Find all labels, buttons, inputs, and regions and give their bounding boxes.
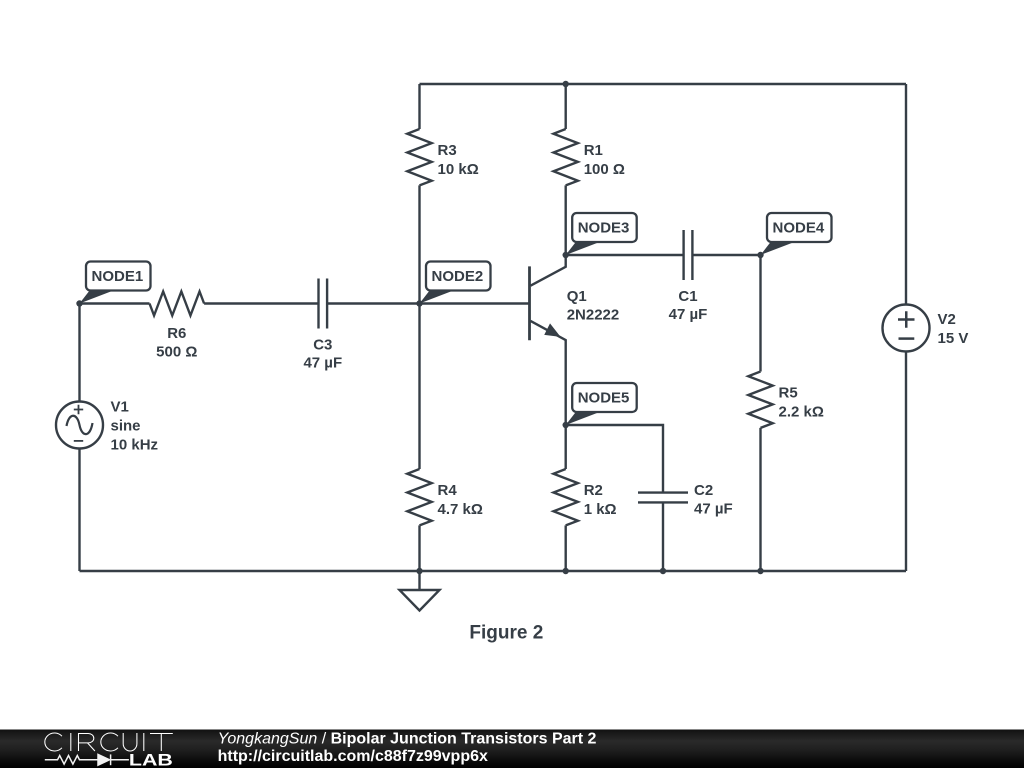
wire NODE1 to R6: [80, 302, 150, 304]
wire top rail junction to R1: [565, 84, 567, 129]
svg-text:R5: R5: [779, 384, 798, 401]
resistor R3: [407, 129, 431, 185]
svg-text:R3: R3: [438, 142, 457, 159]
resistor R2: [554, 469, 578, 525]
junction dot NODE3: [563, 252, 569, 258]
junction dot NODE4: [757, 252, 763, 258]
svg-text:NODE5: NODE5: [578, 390, 630, 407]
resistor R5: [748, 372, 772, 428]
junction dot NODE1: [76, 300, 82, 306]
svg-text:http://circuitlab.com/c88f7z99: http://circuitlab.com/c88f7z99vpp6x: [218, 748, 488, 765]
svg-text:1 kΩ: 1 kΩ: [584, 501, 617, 518]
capacitor C1: [684, 230, 693, 280]
capacitor C2 labels: [694, 482, 733, 518]
svg-text:2N2222: 2N2222: [567, 307, 620, 324]
svg-text:500 Ω: 500 Ω: [156, 343, 197, 360]
wire NODE5 to C2: [566, 425, 663, 493]
wire C1 to NODE4: [692, 254, 760, 256]
svg-text:C2: C2: [694, 482, 713, 499]
junction dot ground rail C2: [660, 568, 666, 574]
svg-text:100 Ω: 100 Ω: [584, 161, 625, 178]
node NODE4 callout: [761, 213, 832, 255]
wire R1 to NODE3: [565, 185, 567, 255]
svg-text:NODE3: NODE3: [578, 220, 630, 237]
svg-text:10 kHz: 10 kHz: [111, 437, 159, 454]
voltage source V2 labels: [938, 311, 969, 347]
resistor R4: [407, 469, 431, 525]
capacitor C3: [319, 279, 328, 329]
ground: [400, 571, 440, 611]
wire R2 to bottom rail: [565, 525, 567, 571]
junction dot ground rail R2: [563, 568, 569, 574]
wire NODE2 to R4: [418, 304, 420, 470]
logo resistor-diode glyph: [45, 754, 129, 765]
svg-text:2.2 kΩ: 2.2 kΩ: [779, 403, 824, 420]
wire left rail upper (NODE1 to V1): [78, 304, 80, 402]
wire left rail lower (V1 to bottom rail): [78, 449, 80, 572]
voltage source V1 labels: [111, 399, 159, 454]
svg-text:47 µF: 47 µF: [694, 501, 733, 518]
junction dot ground rail R5: [757, 568, 763, 574]
transistor Q1 labels: [567, 288, 620, 324]
node NODE3 callout: [566, 213, 637, 255]
wire top rail V+: [420, 83, 907, 85]
transistor Q1 2N2222: [530, 255, 566, 425]
svg-text:Figure 2: Figure 2: [469, 622, 543, 643]
voltage source V1 (sine): [56, 402, 103, 449]
svg-text:4.7 kΩ: 4.7 kΩ: [438, 501, 483, 518]
resistor R1 labels: [584, 142, 625, 178]
resistor R1: [554, 129, 578, 185]
wire R6 to C3: [204, 302, 318, 304]
svg-text:NODE4: NODE4: [773, 220, 825, 237]
svg-text:NODE1: NODE1: [92, 268, 144, 285]
node NODE1 callout: [80, 262, 151, 304]
junction dot NODE2: [416, 300, 422, 306]
footer bar: [0, 730, 1024, 768]
wire right rail lower (V2 to bottom rail): [905, 352, 907, 572]
svg-text:C1: C1: [678, 288, 697, 305]
svg-text:R6: R6: [167, 325, 186, 342]
wire NODE3 to C1: [566, 254, 684, 256]
svg-text:47 µF: 47 µF: [303, 355, 342, 372]
voltage source V2: [883, 305, 930, 352]
capacitor C2: [638, 493, 688, 503]
wire right rail upper (top rail to V2): [905, 84, 907, 305]
svg-text:R4: R4: [438, 482, 458, 499]
svg-text:15 V: 15 V: [938, 330, 969, 347]
svg-text:C3: C3: [313, 337, 332, 354]
wire top rail to R3: [418, 84, 420, 129]
svg-text:NODE2: NODE2: [432, 268, 484, 285]
wire R4 to bottom rail: [418, 525, 420, 571]
wire R3 to NODE2: [418, 185, 420, 303]
resistor R4 labels: [438, 482, 483, 518]
resistor R3 labels: [438, 142, 479, 178]
resistor R6 labels: [156, 325, 197, 360]
wire C2 to bottom rail: [662, 502, 664, 571]
svg-text:R2: R2: [584, 482, 603, 499]
svg-text:47 µF: 47 µF: [669, 306, 708, 323]
logo CIRCUIT wordmark: [45, 733, 173, 751]
resistor R5 labels: [779, 384, 824, 420]
wire NODE4 to R5: [759, 255, 761, 372]
svg-text:Q1: Q1: [567, 288, 587, 305]
svg-text:10 kΩ: 10 kΩ: [438, 161, 479, 178]
junction dot NODE5: [563, 422, 569, 428]
svg-text:V1: V1: [111, 399, 129, 416]
wire NODE5 to R2: [565, 425, 567, 469]
junction dot ground rail R4: [416, 568, 422, 574]
wire bottom rail (ground net): [80, 570, 907, 572]
resistor R2 labels: [584, 482, 617, 518]
svg-text:YongkangSun / Bipolar Junction: YongkangSun / Bipolar Junction Transisto…: [218, 730, 597, 747]
wire R5 to bottom rail: [759, 428, 761, 571]
resistor R6: [150, 292, 205, 316]
svg-text:sine: sine: [111, 418, 141, 435]
wire C3 to NODE2 to Q1 base: [327, 302, 529, 304]
svg-text:V2: V2: [938, 311, 956, 328]
node NODE2 callout: [420, 262, 491, 304]
capacitor C3 labels: [303, 337, 342, 372]
junction dot top rail / R1: [563, 81, 569, 87]
svg-text:LAB: LAB: [129, 751, 173, 768]
node NODE5 callout: [566, 383, 637, 425]
svg-text:R1: R1: [584, 142, 603, 159]
capacitor C1 labels: [669, 288, 708, 323]
